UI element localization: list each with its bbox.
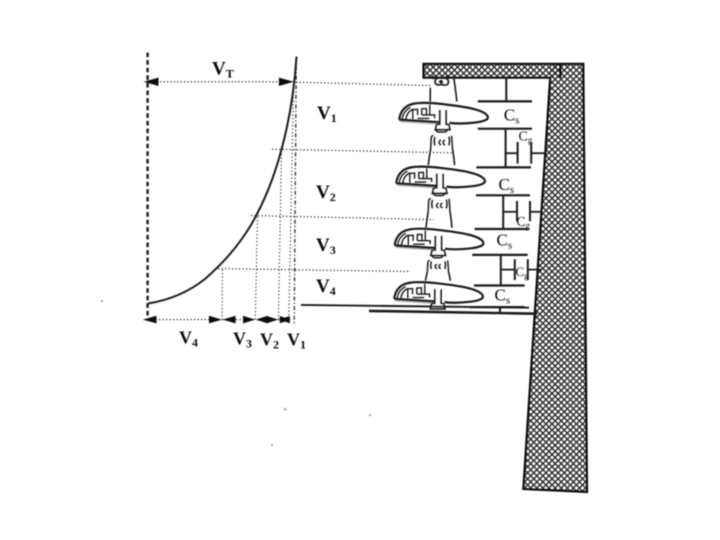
dotted vertical drop V1 xyxy=(289,83,294,319)
disc 1 inner arc xyxy=(402,107,413,119)
clevis 2-3 cap xyxy=(428,199,450,212)
capacitor Cg1 plates xyxy=(518,142,532,164)
conductor line lower xyxy=(369,311,537,314)
svg-text:V4: V4 xyxy=(179,328,198,350)
dash-dot vertical through curve apex xyxy=(294,57,296,326)
wire Cs4 to conductor xyxy=(499,307,501,313)
svg-text:VT: VT xyxy=(212,59,234,81)
capacitor Cg3 plates xyxy=(515,259,528,280)
scan specks xyxy=(101,300,371,446)
top suspension clevis blob xyxy=(435,78,448,85)
wire arm to Cs1 xyxy=(505,78,507,102)
tower cross-arm xyxy=(424,64,588,492)
clevis 3-4 cap xyxy=(427,260,448,271)
wire Cs3 to Cs4 xyxy=(500,255,502,286)
svg-text:Cs: Cs xyxy=(495,286,511,307)
wire Cg3 to tower xyxy=(528,269,541,271)
svg-text:V2: V2 xyxy=(260,330,279,352)
bottom dimension dotted line xyxy=(145,319,290,321)
dotted horizontal line level 4 xyxy=(218,269,411,272)
svg-text:Cs: Cs xyxy=(499,175,515,196)
svg-text:Cg: Cg xyxy=(519,130,533,146)
insulator unit 4 xyxy=(394,282,483,309)
shunt Cg1 junction wire xyxy=(506,152,518,154)
bottom arrow pair at V3/V2 b xyxy=(256,316,268,324)
capacitor Cg2 plates xyxy=(517,201,530,221)
wire Cs2 to Cs3 xyxy=(502,195,504,229)
bottom arrow pair at V4/V3 xyxy=(209,316,222,324)
bottom arrowhead far left xyxy=(143,316,157,324)
axis dashed vertical line xyxy=(146,53,148,321)
svg-text:V2: V2 xyxy=(316,182,336,204)
VT arrow shaft xyxy=(150,81,290,83)
bottom arrowhead far right xyxy=(280,316,291,323)
capacitor Cs3 plates xyxy=(472,229,528,255)
clevis 1-2 cap xyxy=(431,136,453,149)
wire Cg2 to tower xyxy=(530,211,543,213)
clevis 1-2 neck U xyxy=(436,129,447,132)
top attachment neck xyxy=(430,77,457,102)
VT arrowhead right xyxy=(279,78,294,86)
dotted horizontal line level 2 xyxy=(272,149,453,153)
voltage distribution curve xyxy=(148,57,297,304)
bottom arrow pair at V2/V1 xyxy=(267,316,278,323)
svg-text:V1: V1 xyxy=(317,103,337,125)
shunt Cg2 junction wire xyxy=(503,211,517,213)
bottom arrow pair at V3/V2 xyxy=(243,316,255,324)
disc 1 under-rim line xyxy=(401,122,437,124)
disc 1 rib marks xyxy=(413,105,435,119)
shunt Cg3 junction wire xyxy=(501,269,515,271)
wire Cs1 to Cs2 xyxy=(505,129,507,168)
VT arrowhead left xyxy=(144,78,159,86)
tower leg xyxy=(523,64,587,492)
wire Cg1 to tower xyxy=(531,152,545,154)
capacitor Cs1 plates xyxy=(478,101,532,128)
svg-text:V4: V4 xyxy=(316,276,336,298)
bottom arrow pair at V2/V1 b xyxy=(279,316,290,323)
clevis 3-4 neck U xyxy=(432,255,442,258)
svg-text:V1: V1 xyxy=(287,330,306,352)
insulator unit 3 xyxy=(395,229,484,256)
dotted vertical drop V3 xyxy=(255,217,257,320)
clevis 1-2 skirt xyxy=(428,148,454,165)
insulator unit 2 xyxy=(396,167,485,194)
dotted horizontal line level 3 xyxy=(251,216,434,220)
clevis 3-4 skirt xyxy=(426,271,451,280)
svg-text:Cs: Cs xyxy=(504,106,520,127)
svg-text:V3: V3 xyxy=(233,329,252,351)
dotted horizontal line level 1 to insulator 1 xyxy=(296,82,432,85)
clevis 2-3 skirt xyxy=(426,211,452,227)
clevis 2-3 neck U xyxy=(434,192,445,195)
conductor line upper xyxy=(301,305,529,308)
svg-text:V3: V3 xyxy=(316,235,336,257)
bottom arrow pair at V4/V3 b xyxy=(223,316,236,324)
dotted vertical drop V2 xyxy=(278,151,281,320)
capacitor Cs4 plates xyxy=(470,286,525,308)
capacitor Cs2 plates xyxy=(476,167,531,195)
insulator unit 1 xyxy=(399,103,488,130)
disc 1 outline xyxy=(399,103,488,124)
disc 1 pin xyxy=(435,110,450,130)
top suspension clevis ticks xyxy=(433,76,447,80)
dotted vertical drop V4 xyxy=(221,270,224,320)
svg-text:Cs: Cs xyxy=(497,231,513,252)
